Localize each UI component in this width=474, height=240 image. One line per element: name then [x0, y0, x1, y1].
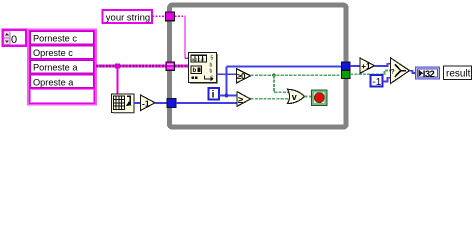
- array element Opreste a: [31, 75, 94, 88]
- wire: green tunnel to select s: [350, 71, 391, 75]
- array element Porneste a: [31, 61, 94, 74]
- string constant your string: [103, 10, 153, 23]
- junction found-net: [272, 73, 276, 77]
- wire: blue tunnel to +1: [350, 65, 361, 67]
- label result: [444, 66, 472, 80]
- svg-text:Opreste a: Opreste a: [33, 77, 74, 87]
- comparison Greater Or Equal To 0?: [237, 69, 251, 83]
- svg-text:≥0: ≥0: [237, 72, 246, 81]
- comparison Greater Or Equal?: [237, 92, 251, 107]
- Search 1D Array function: [189, 53, 218, 84]
- wire: string-array from array to loop (patterned): [96, 65, 167, 68]
- svg-text:-1: -1: [142, 98, 150, 108]
- iteration terminal i: [209, 88, 220, 101]
- junction on array wire: [115, 64, 120, 69]
- svg-text:≥: ≥: [238, 95, 243, 106]
- loop condition stop terminal: [312, 90, 328, 106]
- wire: array inside loop to search: [175, 65, 190, 68]
- wire: string inside loop down to search input: [175, 15, 186, 17]
- svg-text:+1: +1: [361, 62, 371, 71]
- tunnel: string array (left): [166, 62, 175, 71]
- svg-text:i: i: [212, 90, 215, 101]
- svg-text:your string: your string: [106, 12, 150, 23]
- svg-text:I32: I32: [423, 69, 435, 80]
- svg-text:Opreste c: Opreste c: [33, 48, 73, 58]
- wire: your string to tunnel (dashed pink): [152, 15, 166, 17]
- Select function: [391, 58, 410, 84]
- wire: i terminal to greater-equal top input: [219, 94, 238, 96]
- wire: array branch down to Array Size: [116, 66, 118, 95]
- indicator terminal I32 result: [416, 67, 440, 80]
- wire: -1 to select f: [383, 78, 392, 82]
- svg-text:Porneste c: Porneste c: [33, 34, 77, 44]
- wire: >= out to OR: [251, 98, 290, 100]
- svg-text:Porneste a: Porneste a: [33, 63, 78, 73]
- while loop: [170, 5, 347, 127]
- svg-text:0: 0: [11, 34, 17, 46]
- wire: branch down to OR: [274, 75, 289, 92]
- wire: array size to decrement: [134, 102, 141, 104]
- Decrement -1: [141, 95, 156, 111]
- svg-text:abcd: abcd: [192, 57, 205, 63]
- svg-text:-1: -1: [372, 77, 381, 88]
- tunnel: N-1 blue (left): [167, 99, 176, 108]
- Increment +1: [360, 58, 375, 73]
- wire: i net horizontal to right blue tunnel: [227, 66, 343, 68]
- Array Size function: [112, 94, 135, 113]
- wire: OR to stop terminal: [305, 95, 313, 97]
- array element Porneste c: [31, 31, 94, 44]
- wire: >=0 out to green tunnel: [251, 74, 343, 76]
- wire: left tunnel to >= bottom input: [176, 102, 238, 104]
- svg-text:5: 5: [211, 56, 214, 62]
- numeric constant -1: [371, 75, 383, 88]
- svg-text:v: v: [292, 92, 297, 102]
- svg-text:?: ?: [391, 68, 395, 75]
- array element empty: [31, 90, 94, 103]
- wire: +1 out to select t: [375, 64, 392, 66]
- wire: decrement to left blue tunnel: [155, 102, 168, 104]
- tunnel: index blue (right): [342, 62, 351, 70]
- svg-text:b: b: [193, 68, 197, 74]
- array constant shell: [28, 29, 96, 105]
- tunnel: found green (right): [342, 70, 351, 78]
- array index display: [3, 30, 26, 46]
- array element Opreste c: [31, 46, 94, 59]
- svg-text:result: result: [446, 69, 471, 80]
- junction on i net: [224, 93, 228, 97]
- wire: search output to >=0: [217, 73, 238, 75]
- tunnel: string (left border top): [166, 12, 175, 21]
- Or gate: [288, 89, 305, 103]
- wire: i net vertical branch up: [226, 67, 228, 96]
- wire: select out to indicator: [410, 71, 417, 73]
